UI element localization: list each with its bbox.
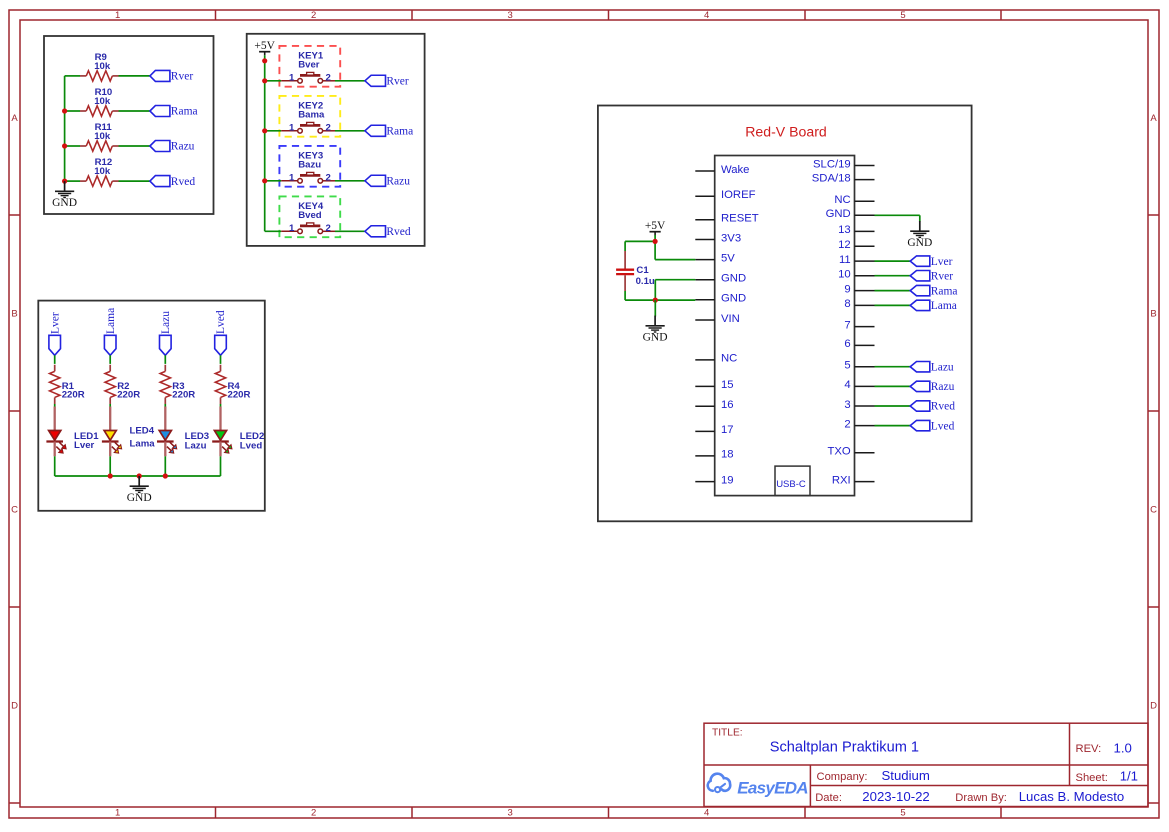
wire GND pin right: [875, 215, 920, 221]
svg-text:2: 2: [844, 418, 850, 430]
svg-text:Bved: Bved: [298, 210, 322, 221]
pin GND (left): [695, 273, 746, 285]
USB-C connector box: [775, 466, 810, 496]
pin 10 (right): [838, 269, 874, 281]
svg-text:1.0: 1.0: [1114, 740, 1132, 755]
svg-text:2: 2: [311, 808, 316, 819]
lead LED2 cathode: [219, 442, 221, 457]
title block: [704, 723, 1148, 806]
net flag Razu: [150, 141, 195, 153]
svg-text:Lazu: Lazu: [185, 440, 207, 451]
ground GND at chip left: [643, 316, 668, 344]
EasyEDA logo: [708, 774, 809, 798]
svg-text:0.1u: 0.1u: [636, 276, 655, 287]
pin 5V (left): [695, 252, 735, 264]
svg-text:1: 1: [289, 72, 295, 83]
svg-text:+5V: +5V: [645, 220, 666, 232]
pin 16 (left): [695, 399, 733, 411]
lead LED3 cathode: [164, 442, 166, 457]
title block Sheet: [1076, 769, 1139, 784]
net flag Rama (chip): [910, 285, 957, 297]
pin 2 (right): [844, 418, 874, 430]
wire pin to flag Rver: [875, 275, 911, 277]
wire KEY2 to flag: [335, 130, 365, 132]
pin 9 (right): [844, 283, 874, 295]
svg-text:Rver: Rver: [171, 71, 194, 83]
ground GND at chip right: [907, 221, 932, 249]
svg-text:4: 4: [844, 379, 850, 391]
pin NC (left): [695, 353, 737, 365]
wire pin to flag Lved: [875, 425, 911, 427]
svg-text:8: 8: [844, 298, 850, 310]
wire +5V to 5V pin: [655, 235, 695, 260]
wire row R10: [65, 110, 81, 112]
svg-text:15: 15: [721, 379, 734, 391]
resistor R11 10k: [80, 122, 119, 151]
wire pin to flag Rved: [875, 405, 911, 407]
svg-text:3: 3: [508, 808, 513, 819]
LED LED3 (Lazu): [157, 431, 209, 454]
title block REV: [1076, 740, 1132, 755]
pin IOREF (left): [695, 189, 755, 201]
svg-text:Razu: Razu: [171, 141, 195, 153]
box: push buttons: [247, 34, 425, 246]
svg-text:18: 18: [721, 449, 734, 461]
svg-text:10k: 10k: [94, 131, 111, 142]
dashed group box KEY3: [279, 146, 340, 187]
pin 7 (right): [844, 319, 874, 331]
resistor R4 220R: [215, 365, 250, 404]
svg-text:NC: NC: [834, 194, 850, 206]
+5V supply box2: [254, 40, 275, 55]
svg-text:Rver: Rver: [931, 270, 954, 282]
lead LED3 anode: [164, 404, 166, 407]
svg-text:Rama: Rama: [386, 126, 413, 138]
wire flag to R3: [164, 355, 166, 364]
pin 19 (left): [695, 474, 733, 486]
svg-text:Lama: Lama: [931, 300, 957, 312]
svg-text:Lazu: Lazu: [931, 361, 954, 373]
junction: [262, 178, 267, 183]
box: pull-down resistor network: [44, 36, 214, 214]
net flag Rver: [365, 75, 409, 87]
net flag Lver (top): [49, 312, 62, 355]
svg-text:3: 3: [508, 10, 513, 21]
svg-text:10: 10: [838, 269, 851, 281]
svg-text:Razu: Razu: [386, 176, 410, 188]
svg-text:D: D: [11, 701, 18, 712]
wire pin to flag Rama: [875, 290, 911, 292]
pin 3V3 (left): [695, 232, 741, 244]
resistor R2 220R: [105, 365, 140, 404]
junction +5V node: [653, 239, 658, 244]
pin 11 (right): [839, 254, 875, 266]
wire pin to flag Lver: [875, 260, 911, 262]
svg-text:1: 1: [115, 808, 120, 819]
svg-text:3V3: 3V3: [721, 232, 741, 244]
wire GND pin 2: [655, 299, 695, 301]
svg-text:B: B: [1150, 309, 1156, 320]
junction: [262, 128, 267, 133]
pin GND (left): [695, 293, 746, 305]
svg-text:+5V: +5V: [254, 40, 275, 52]
wire: vertical bus box2: [264, 55, 266, 231]
pin SDA/18 (right): [812, 172, 875, 184]
junction: [62, 108, 67, 113]
svg-text:IOREF: IOREF: [721, 189, 756, 201]
svg-text:Rver: Rver: [386, 76, 409, 88]
svg-text:Bazu: Bazu: [298, 160, 321, 171]
net flag Lved (top): [215, 310, 228, 355]
resistor R9 10k: [80, 52, 119, 81]
junction GND node: [653, 298, 658, 303]
svg-text:Lama: Lama: [105, 308, 117, 334]
svg-text:Bama: Bama: [298, 110, 325, 121]
wire pin to flag Razu: [875, 385, 911, 387]
svg-text:1/1: 1/1: [1120, 769, 1138, 784]
svg-text:2: 2: [326, 72, 331, 83]
net flag Lama (chip): [910, 300, 957, 312]
svg-text:VIN: VIN: [721, 313, 740, 325]
svg-text:13: 13: [838, 224, 851, 236]
svg-text:GND: GND: [52, 197, 77, 209]
net flag Razu: [365, 175, 410, 187]
svg-text:Drawn By:: Drawn By:: [955, 792, 1007, 804]
ground GND box3: [127, 476, 152, 504]
push button KEY3 Bazu: [281, 151, 335, 184]
wire KEY4 to flag: [335, 230, 365, 232]
svg-text:2: 2: [326, 122, 331, 133]
svg-text:C: C: [1150, 505, 1157, 516]
svg-text:Rama: Rama: [171, 106, 198, 118]
svg-text:220R: 220R: [172, 390, 195, 401]
svg-text:2: 2: [326, 172, 331, 183]
push button KEY2 Bama: [281, 101, 335, 134]
capacitor C1 0.1u: [616, 251, 655, 291]
resistor R3 220R: [160, 365, 195, 404]
pin 12 (right): [838, 239, 874, 251]
net flag Lved (chip): [910, 420, 954, 432]
svg-text:5V: 5V: [721, 252, 735, 264]
net flag Rver (chip): [910, 270, 953, 282]
junction: [262, 78, 267, 83]
svg-text:C: C: [11, 505, 18, 516]
svg-text:2023-10-22: 2023-10-22: [862, 789, 929, 804]
svg-text:RESET: RESET: [721, 213, 759, 225]
svg-text:Red-V Board: Red-V Board: [745, 123, 826, 139]
junction below +5V: [262, 58, 267, 63]
net flag Lama (top): [104, 308, 117, 355]
svg-text:EasyEDA: EasyEDA: [737, 778, 808, 797]
pin 5 (right): [844, 360, 874, 372]
svg-text:2: 2: [326, 223, 331, 234]
svg-text:16: 16: [721, 399, 734, 411]
junction: [163, 473, 168, 478]
wire: bottom bus box3: [55, 475, 221, 477]
junction: [137, 473, 142, 478]
net flag Rver: [150, 70, 193, 82]
svg-text:GND: GND: [721, 293, 746, 305]
pin GND (right): [826, 208, 875, 220]
wire to KEY4: [265, 230, 282, 232]
svg-text:Razu: Razu: [931, 381, 955, 393]
svg-text:10k: 10k: [94, 61, 111, 72]
wire row R12: [65, 180, 81, 182]
svg-text:10k: 10k: [94, 96, 111, 107]
svg-text:Rved: Rved: [931, 401, 956, 413]
wire KEY3 to flag: [335, 180, 365, 182]
svg-text:SLC/19: SLC/19: [813, 158, 851, 170]
box: Red-V Board: [598, 106, 972, 522]
LED LED1 (Lver): [46, 431, 99, 454]
svg-text:Lved: Lved: [215, 310, 227, 334]
svg-text:10k: 10k: [94, 166, 111, 177]
svg-text:B: B: [11, 309, 17, 320]
net flag Lazu (chip): [910, 361, 954, 373]
wire GND node down: [654, 300, 656, 316]
svg-text:1: 1: [289, 172, 295, 183]
svg-text:Sheet:: Sheet:: [1076, 772, 1108, 784]
pin 17 (left): [695, 424, 733, 436]
dashed group box KEY4: [279, 196, 340, 237]
svg-text:LED4: LED4: [130, 426, 155, 437]
svg-text:12: 12: [838, 239, 851, 251]
+5V supply at chip: [645, 220, 666, 235]
svg-text:RXI: RXI: [832, 474, 851, 486]
svg-text:Lver: Lver: [49, 312, 61, 334]
svg-text:SDA/18: SDA/18: [812, 172, 851, 184]
pin 8 (right): [844, 298, 874, 310]
junction: [62, 179, 67, 184]
svg-text:Rama: Rama: [931, 285, 958, 297]
title block Date: [815, 789, 1124, 804]
wire row R9: [65, 75, 81, 77]
wire KEY1 to flag: [335, 80, 365, 82]
svg-text:11: 11: [839, 254, 851, 266]
wire GND pin 1: [655, 280, 695, 300]
svg-text:C1: C1: [636, 265, 649, 276]
junction: [62, 143, 67, 148]
pin VIN (left): [695, 313, 740, 325]
svg-text:Lver: Lver: [74, 440, 95, 451]
box: LED indicators: [38, 301, 264, 511]
pin 15 (left): [695, 379, 733, 391]
wire to KEY2: [265, 130, 282, 132]
wire row R11: [65, 145, 81, 147]
svg-text:TXO: TXO: [827, 446, 850, 458]
pin SLC/19 (right): [813, 158, 874, 170]
wire pin to flag Lazu: [875, 366, 911, 368]
push button KEY1 Bver: [281, 51, 335, 84]
svg-text:4: 4: [704, 10, 709, 21]
svg-text:GND: GND: [643, 332, 668, 344]
svg-text:220R: 220R: [62, 390, 85, 401]
svg-text:220R: 220R: [228, 390, 251, 401]
svg-text:Lucas B. Modesto: Lucas B. Modesto: [1019, 789, 1125, 804]
svg-text:9: 9: [844, 283, 850, 295]
svg-text:Bver: Bver: [298, 60, 320, 71]
svg-text:GND: GND: [907, 237, 932, 249]
svg-text:1: 1: [115, 10, 120, 21]
svg-text:Rved: Rved: [171, 176, 196, 188]
resistor R12 10k: [80, 157, 119, 186]
wire flag to R2: [109, 355, 111, 364]
svg-text:Rved: Rved: [386, 226, 411, 238]
LED LED4 (Lama): [102, 426, 155, 454]
net flag Lver (chip): [910, 256, 952, 268]
net flag Rved (chip): [910, 401, 955, 413]
svg-text:5: 5: [900, 10, 905, 21]
pin Wake (left): [695, 164, 749, 176]
net flag Rama: [365, 125, 413, 137]
pin TXO (right): [827, 446, 874, 458]
svg-text:Schaltplan Praktikum 1: Schaltplan Praktikum 1: [770, 740, 919, 756]
svg-text:6: 6: [844, 338, 850, 350]
title block TITLE: [712, 728, 919, 756]
lead LED1 cathode: [54, 442, 56, 457]
pin 13 (right): [838, 224, 874, 236]
wire: vertical bus box1: [64, 76, 66, 181]
dashed group box KEY2: [279, 96, 340, 137]
svg-text:5: 5: [900, 808, 905, 819]
svg-text:USB-C: USB-C: [776, 479, 806, 490]
resistor R1 220R: [50, 365, 85, 404]
lead LED2 anode: [220, 404, 222, 407]
svg-text:19: 19: [721, 474, 734, 486]
wire flag to R4: [220, 355, 222, 364]
pin RESET (left): [695, 213, 758, 225]
pin 18 (left): [695, 449, 733, 461]
pin RXI (right): [832, 474, 875, 486]
ground GND box1: [52, 181, 77, 209]
svg-text:Studium: Studium: [882, 768, 930, 783]
junction: [108, 473, 113, 478]
svg-text:1: 1: [289, 122, 295, 133]
net flag Rama: [150, 106, 198, 118]
pin 6 (right): [844, 338, 874, 350]
push button KEY4 Bved: [281, 201, 335, 234]
wire to KEY1: [265, 80, 282, 82]
lead LED4 anode: [109, 404, 111, 407]
svg-text:GND: GND: [721, 273, 746, 285]
svg-text:A: A: [11, 113, 18, 124]
pin 3 (right): [844, 399, 874, 411]
lead LED4 cathode: [109, 442, 111, 457]
svg-text:Company:: Company:: [817, 771, 868, 783]
svg-text:Lama: Lama: [130, 438, 156, 449]
wire pin to flag Lama: [875, 304, 911, 306]
lead LED1 anode: [54, 404, 56, 407]
title block Company: [817, 768, 930, 783]
wire flag to R1: [54, 355, 56, 364]
net flag Lazu (top): [160, 311, 173, 356]
svg-text:4: 4: [704, 808, 709, 819]
svg-text:7: 7: [844, 319, 850, 331]
svg-text:GND: GND: [826, 208, 851, 220]
wire to KEY3: [265, 180, 282, 182]
svg-text:Date:: Date:: [815, 792, 842, 804]
svg-text:D: D: [1150, 701, 1157, 712]
pin NC (right): [834, 194, 874, 206]
svg-text:1: 1: [289, 223, 295, 234]
svg-text:TITLE:: TITLE:: [712, 728, 743, 739]
svg-text:A: A: [1150, 113, 1157, 124]
svg-text:Lved: Lved: [240, 441, 263, 452]
svg-text:Lver: Lver: [931, 256, 953, 268]
svg-text:Wake: Wake: [721, 164, 749, 176]
dashed group box KEY1: [279, 46, 340, 87]
svg-text:220R: 220R: [117, 390, 140, 401]
wire +5V to C1: [625, 241, 655, 251]
wire C1 to GND bus: [625, 291, 655, 300]
LED LED2 (Lved): [212, 431, 264, 454]
svg-text:REV:: REV:: [1076, 743, 1102, 755]
net flag Razu (chip): [910, 381, 954, 393]
net flag Rved: [365, 226, 411, 238]
pin 4 (right): [844, 379, 874, 391]
svg-text:5: 5: [844, 360, 850, 372]
svg-text:Lved: Lved: [931, 420, 955, 432]
svg-text:3: 3: [844, 399, 850, 411]
svg-text:2: 2: [311, 10, 316, 21]
svg-text:NC: NC: [721, 353, 737, 365]
chip U1 Red-V outline: [715, 156, 855, 496]
resistor R10 10k: [80, 87, 119, 116]
svg-text:GND: GND: [127, 492, 152, 504]
net flag Rved: [150, 176, 195, 188]
svg-text:Lazu: Lazu: [160, 311, 172, 334]
svg-text:17: 17: [721, 424, 734, 436]
